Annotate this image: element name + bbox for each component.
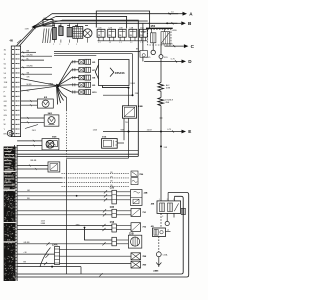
svg-text:C65: C65 [110,207,115,209]
lamp unit 6/7 [58,70,71,86]
connector C50 [112,190,117,204]
svg-text:7/8: 7/8 [125,122,128,124]
wire [160,59,162,83]
svg-text:LINE: LINE [165,102,170,104]
wire pin left [123,118,125,140]
svg-text:a4: a4 [167,229,169,231]
wire [54,53,133,55]
svg-text:E: E [188,129,191,134]
wire vertical to D [142,23,144,50]
wire [17,149,138,151]
svg-text:24B8: 24B8 [153,270,159,273]
wire [67,157,129,159]
wire bus upper [53,20,148,22]
wire stub below [60,40,62,43]
lamp 7B6 [131,171,138,176]
wire dotted [62,186,130,188]
svg-text:BL: BL [27,58,29,60]
bus bar [146,27,173,29]
wire [116,243,128,245]
label mark [59,25,62,27]
wire branch [25,125,38,129]
label mark [67,25,70,27]
wire [21,117,45,119]
lamp unit 6/10 [58,85,71,92]
svg-text:GR: GR [4,101,8,103]
wire [17,168,48,170]
relay coil element [161,32,170,44]
wire fan to bus lower [35,23,53,27]
wire [60,248,121,250]
wire [17,144,42,146]
svg-text:15E: 15E [4,82,8,84]
wire [17,195,112,197]
wire [17,243,112,245]
label mark [85,25,88,27]
ground ring bottom of column [7,130,13,136]
control unit 4/55A/16 [99,60,130,86]
wire [128,132,130,159]
relay 8/5 [37,99,53,108]
relay contact element [151,33,156,43]
connector C3B [118,29,126,37]
wire stub below [77,38,79,42]
lamp 7B8 [131,253,141,260]
wire [21,55,52,57]
label mark [75,25,78,27]
wire [158,257,160,263]
wire loop L1 [96,11,149,28]
svg-text:GN: GN [4,115,8,117]
connector box 6/1 [43,20,53,27]
wire [17,199,112,201]
arrow C [165,45,184,47]
wire main vertical right [160,44,162,55]
svg-text:+30: +30 [23,252,26,254]
connector C2B [108,29,116,37]
wire pin right [128,118,130,131]
wire bus lower to arrow B [53,22,178,24]
wire to splice [21,79,56,86]
connector column lower (dense labels) [14,145,16,281]
junction 23B [132,94,134,96]
connector C58 [112,224,117,232]
flasher unit [48,162,60,172]
fuse grid block [73,27,83,39]
connector C4B [129,29,137,37]
wire fan to bus upper [35,21,53,27]
wire linking stubs [98,40,148,42]
wire [17,253,54,255]
wire [128,88,130,106]
relay switch lever [162,33,170,44]
wire [60,255,132,257]
svg-text:24B8: 24B8 [41,223,45,225]
wire stub below lamp [87,38,89,43]
lamp unit 7S1 [131,208,141,216]
svg-text:3: 3 [162,216,163,218]
wire bundle to loom [58,87,67,98]
wire dotted [62,173,130,175]
wire [17,191,112,193]
connector C65 [112,209,117,217]
svg-text:4/55A/16: 4/55A/16 [115,72,125,75]
svg-text:C50: C50 [110,188,115,190]
wire [142,57,144,61]
wire from unit bottom [103,86,129,88]
svg-text:W-SB: W-SB [27,84,33,86]
wire stub [48,29,50,44]
wire dotted [62,177,130,179]
svg-text:GR-SB: GR-SB [23,242,30,244]
wire [54,55,96,57]
wire stub to bus [60,23,62,26]
arrow E [103,131,182,133]
wire [17,40,21,43]
connector ring 31 [159,55,163,59]
wire [17,181,61,183]
svg-text:2: 2 [76,44,77,46]
svg-text:4/B: 4/B [151,202,155,205]
wire vertical [132,54,134,95]
label mark [52,25,55,27]
gauge 5/2 [59,27,63,36]
wire [116,239,128,241]
wire [60,263,132,265]
wire [21,104,38,106]
loom vertical [66,98,68,111]
svg-text:SW5: SW5 [76,225,80,227]
ground connector [165,221,169,225]
junction 7A8 [128,131,130,133]
antenna symbol [156,263,161,268]
harness line outer [15,193,189,278]
wire dotted [62,181,130,183]
wire stub to bus [69,23,71,27]
svg-text:1 2: 1 2 [109,42,112,44]
svg-text:1 2: 1 2 [119,42,122,44]
round connector [128,235,141,248]
wire [103,94,133,96]
svg-text:W: W [4,124,6,126]
svg-text:VO: VO [4,110,7,112]
wire pair upper [17,153,138,155]
svg-text:BN: BN [4,134,7,136]
relay 8/28 [42,139,59,150]
wire [17,266,81,268]
unit 7H5 [131,178,138,185]
lamp unit 6/9 [58,84,71,87]
wire branch [85,228,112,241]
wire [17,214,112,216]
relay 4/B [157,201,181,214]
wire stub below [69,40,71,43]
diode unit 4/9B [123,106,137,118]
wire stub right [166,231,171,233]
wire to arrow A [52,13,178,15]
thermal fuse zigzag A/C [158,83,163,92]
svg-text:GR-RD: GR-RD [27,55,34,57]
wire [21,73,52,75]
wire bracket L2 [56,16,127,28]
wire [151,28,153,33]
wire long vertical from top [62,20,138,156]
svg-text:1: 1 [159,199,160,201]
svg-text:4/9B: 4/9B [138,105,143,108]
arrow A [168,13,183,15]
loom arc [40,248,51,267]
wire fan to bracket L2 [35,16,56,26]
svg-text:1 2: 1 2 [98,42,101,44]
wire splice to connector column [17,28,34,46]
svg-text:BN-SB: BN-SB [31,160,38,162]
svg-text:4/5B: 4/5B [172,30,177,32]
svg-text:GN-RD: GN-RD [27,66,34,68]
wire dashed [158,237,160,252]
junction SW [84,227,86,229]
wire [21,66,52,68]
wire fan to A-line [35,14,52,26]
wire pin to harness [174,196,176,201]
svg-text:H8: H8 [23,262,25,264]
wire pin to ground [166,213,168,221]
instrument unit 24B [131,190,143,206]
harness line inner [15,196,184,274]
svg-text:2: 2 [53,44,54,46]
wire stub [43,29,45,44]
connector on harness [181,208,185,214]
svg-text:2: 2 [59,44,60,46]
svg-text:C58: C58 [110,222,115,224]
wire [54,50,140,52]
wire [80,267,82,274]
wire stub [50,29,52,44]
lamp unit 7S2 [131,223,141,232]
relay 24/2 [44,115,59,126]
svg-text:C55A: C55A [163,253,168,256]
junction 24F [160,145,162,147]
wire stub to bus [53,23,55,27]
wire dashed pin [160,213,162,228]
sensor box [48,141,57,147]
wire to splice [21,86,56,91]
switch 3/16 [102,139,118,149]
wire [164,28,166,31]
bracket [110,68,114,77]
svg-text:A/C: A/C [166,84,170,87]
svg-text:24B: 24B [144,191,148,194]
svg-text:1 2: 1 2 [130,42,133,44]
wire [21,51,36,53]
svg-text:2: 2 [167,199,168,201]
wire [160,106,162,201]
svg-text:31/5: 31/5 [164,57,168,59]
wire stub [45,29,47,44]
splice S2 [56,84,59,87]
lamp unit 6/8 [58,78,71,86]
wire [117,142,124,144]
lamp unit 6/5 [58,62,71,86]
wire pin to harness [167,193,169,201]
connector C55A [156,252,161,257]
connector C1B [97,29,105,37]
junction [51,266,53,268]
wire stub to bus [77,23,79,27]
gauge 5/3 [67,28,72,37]
wire [17,210,112,212]
wire [17,262,54,264]
lamp symbol [83,29,92,38]
connector C5B [139,29,147,37]
lamp 7B9 [131,261,141,268]
gauge 5/1 [53,28,57,40]
wire [17,229,112,231]
wire [17,177,61,179]
wire fan to long vertical line [35,20,62,27]
control box 4/9 [153,228,166,237]
arrow D [144,60,181,62]
wire stub below [53,40,55,43]
wire [21,100,38,102]
bulb unit 24/5 [140,51,147,58]
wire [21,121,45,123]
wire [17,225,112,227]
wire to splice [21,85,56,87]
ground 31/5 left [152,43,154,51]
wire [17,140,42,142]
wire stub [173,213,175,217]
wire [21,59,44,61]
svg-text:3: 3 [173,199,174,201]
svg-text:2: 2 [68,44,69,46]
wire pair lower [17,155,138,157]
junction [76,195,78,197]
junction E [160,131,162,133]
splice S1 [32,25,36,29]
tick [160,117,163,119]
arrow B [166,22,181,24]
connector pins [112,237,117,246]
connector column 4/8 upper [11,46,20,137]
junction 24B3 [128,87,130,89]
thermal fuse zigzag pressure [158,98,163,106]
wire [17,165,48,167]
relay 4/56 dashed enclosure [148,30,171,46]
wire [160,91,162,97]
